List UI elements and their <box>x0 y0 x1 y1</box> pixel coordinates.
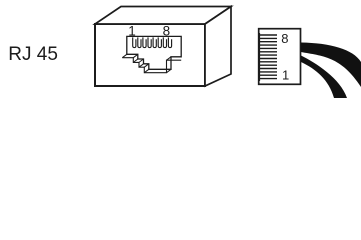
svg-text:1: 1 <box>282 68 289 83</box>
jack 3d connector edges <box>122 54 171 72</box>
coupler top face <box>95 7 231 25</box>
cable lower stroke <box>301 56 347 99</box>
plug body <box>259 29 301 85</box>
cable upper stroke <box>301 43 361 88</box>
coupler right face <box>205 7 231 87</box>
jack contacts comb <box>133 37 172 47</box>
coupler front face <box>95 24 205 86</box>
svg-text:RJ 45: RJ 45 <box>8 44 58 65</box>
plug contacts comb <box>259 33 277 81</box>
jack opening inner 3d profile <box>122 58 181 73</box>
jack opening outline <box>127 36 181 69</box>
svg-text:8: 8 <box>281 31 288 46</box>
